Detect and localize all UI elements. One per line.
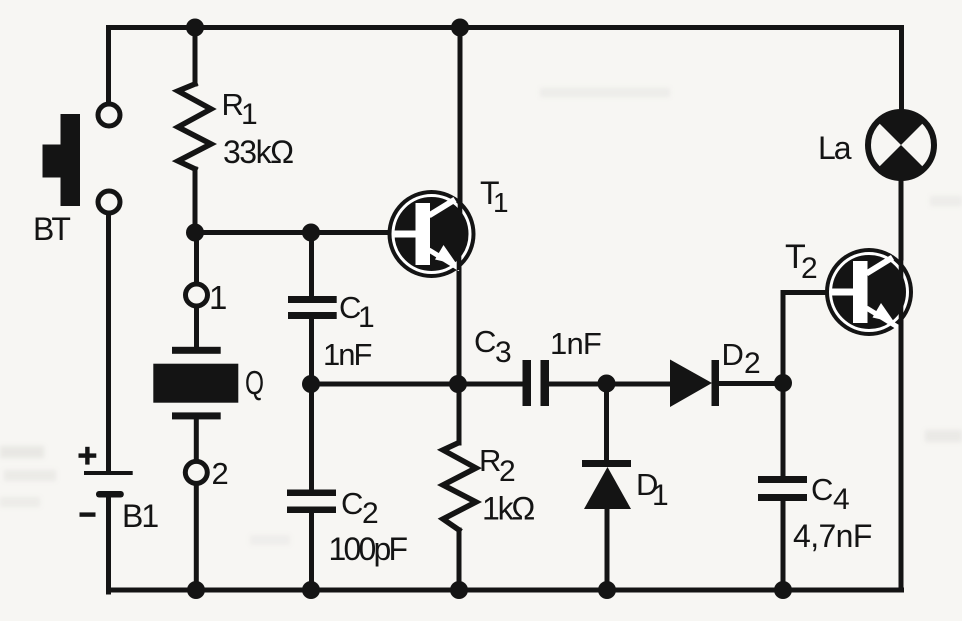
svg-text:D: D (722, 337, 744, 372)
svg-text:Q: Q (245, 364, 264, 401)
svg-text:C: C (811, 472, 833, 507)
svg-text:2: 2 (212, 456, 229, 491)
svg-text:4,7nF: 4,7nF (793, 518, 872, 554)
svg-text:1nF: 1nF (550, 326, 601, 361)
svg-text:1: 1 (493, 187, 509, 218)
svg-text:1kΩ: 1kΩ (482, 491, 534, 527)
svg-text:C: C (474, 324, 496, 359)
svg-text:2: 2 (362, 497, 379, 530)
svg-text:1nF: 1nF (323, 337, 371, 372)
svg-text:2: 2 (499, 455, 516, 488)
svg-text:4: 4 (833, 483, 850, 516)
svg-text:B1: B1 (122, 498, 158, 534)
svg-text:1: 1 (652, 479, 669, 512)
svg-text:100pF: 100pF (329, 531, 408, 567)
svg-text:33kΩ: 33kΩ (223, 134, 293, 170)
svg-text:1: 1 (241, 98, 258, 131)
svg-text:1: 1 (358, 301, 375, 334)
svg-text:La: La (818, 130, 852, 166)
svg-text:2: 2 (744, 347, 761, 380)
svg-text:2: 2 (801, 252, 818, 285)
svg-text:1: 1 (209, 279, 227, 316)
svg-text:3: 3 (495, 336, 512, 369)
svg-text:C: C (341, 486, 363, 521)
svg-text:BT: BT (33, 211, 70, 247)
